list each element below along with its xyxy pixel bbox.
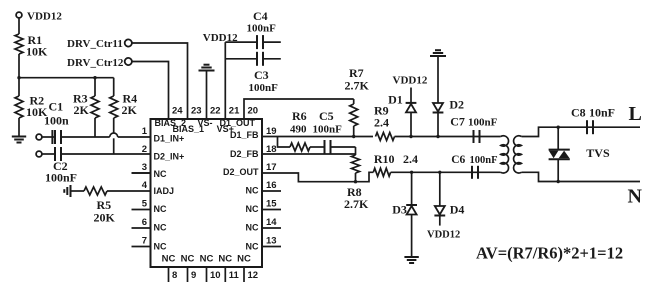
svg-text:2K: 2K [74, 103, 90, 117]
svg-text:VDD12: VDD12 [427, 230, 460, 241]
svg-text:R10: R10 [374, 152, 395, 166]
svg-text:BIAS_1: BIAS_1 [173, 124, 205, 134]
svg-text:VDD12: VDD12 [393, 75, 428, 87]
svg-text:D2_IN+: D2_IN+ [154, 152, 185, 162]
svg-text:C6: C6 [451, 154, 465, 166]
svg-text:NC: NC [200, 254, 214, 265]
svg-text:N: N [628, 186, 643, 208]
svg-text:C5: C5 [319, 109, 334, 123]
svg-text:4: 4 [142, 180, 148, 191]
svg-text:15: 15 [266, 199, 277, 210]
svg-text:NC: NC [246, 242, 259, 252]
svg-text:16: 16 [266, 180, 277, 191]
svg-text:R6: R6 [292, 109, 307, 123]
svg-text:21: 21 [229, 106, 240, 117]
svg-text:2.7K: 2.7K [345, 79, 370, 93]
svg-text:DRV_Ctr11: DRV_Ctr11 [67, 38, 123, 50]
svg-text:9: 9 [191, 270, 196, 281]
svg-text:20: 20 [248, 106, 259, 117]
svg-text:2: 2 [142, 144, 147, 155]
svg-text:10: 10 [210, 270, 221, 281]
svg-text:D3: D3 [392, 203, 407, 217]
svg-text:D2_FB: D2_FB [230, 149, 259, 159]
svg-text:2K: 2K [122, 103, 138, 117]
svg-text:13: 13 [266, 236, 277, 247]
svg-text:D1_FB: D1_FB [230, 130, 259, 140]
svg-text:23: 23 [191, 106, 202, 117]
svg-text:NC: NC [246, 204, 259, 214]
svg-text:D2: D2 [449, 98, 464, 112]
svg-text:NC: NC [181, 254, 195, 265]
svg-text:100nF: 100nF [45, 171, 77, 185]
svg-text:2.4: 2.4 [403, 152, 418, 166]
svg-text:1: 1 [142, 126, 148, 137]
svg-text:VDD12: VDD12 [27, 11, 62, 23]
svg-text:10K: 10K [26, 45, 48, 59]
svg-text:22: 22 [210, 106, 221, 117]
svg-text:20K: 20K [94, 211, 116, 225]
svg-text:D1: D1 [388, 93, 403, 107]
svg-text:19: 19 [266, 126, 277, 137]
svg-text:100nF: 100nF [313, 124, 343, 136]
svg-text:NC: NC [246, 186, 259, 196]
svg-text:11: 11 [229, 270, 240, 281]
svg-text:L: L [629, 103, 642, 125]
svg-text:C3: C3 [254, 68, 269, 82]
svg-text:D4: D4 [450, 203, 465, 217]
svg-text:NC: NC [237, 254, 251, 265]
svg-text:IADJ: IADJ [154, 186, 175, 196]
svg-text:D2_OUT: D2_OUT [223, 167, 259, 177]
svg-text:24: 24 [172, 106, 183, 117]
svg-text:NC: NC [154, 204, 167, 214]
svg-text:100nF: 100nF [470, 155, 498, 166]
svg-text:D1_IN+: D1_IN+ [154, 134, 185, 144]
svg-text:7: 7 [142, 236, 147, 247]
svg-text:2.4: 2.4 [374, 115, 389, 129]
svg-text:AV=(R7/R6)*2+1=12: AV=(R7/R6)*2+1=12 [476, 244, 623, 263]
svg-text:100n: 100n [44, 114, 69, 128]
svg-text:NC: NC [218, 254, 232, 265]
svg-text:2.7K: 2.7K [344, 197, 369, 211]
svg-text:C8: C8 [571, 106, 586, 120]
svg-text:C1: C1 [49, 100, 64, 114]
svg-text:DRV_Ctr12: DRV_Ctr12 [67, 57, 124, 69]
svg-text:100nF: 100nF [468, 117, 498, 129]
svg-text:3: 3 [142, 162, 147, 173]
svg-text:490: 490 [290, 124, 307, 136]
svg-text:C7: C7 [450, 115, 465, 129]
svg-text:C4: C4 [253, 9, 268, 23]
svg-text:NC: NC [154, 242, 167, 252]
svg-text:NC: NC [154, 169, 167, 179]
svg-text:14: 14 [266, 217, 277, 228]
svg-text:100nF: 100nF [249, 82, 279, 94]
svg-text:NC: NC [162, 254, 176, 265]
svg-text:TVS: TVS [586, 146, 610, 160]
svg-text:17: 17 [266, 162, 277, 173]
svg-text:5: 5 [142, 199, 148, 210]
svg-text:6: 6 [142, 217, 147, 228]
svg-text:10nF: 10nF [589, 106, 615, 120]
svg-text:NC: NC [246, 223, 259, 233]
svg-text:12: 12 [248, 270, 259, 281]
svg-text:100nF: 100nF [247, 23, 277, 35]
svg-text:NC: NC [154, 223, 167, 233]
svg-text:8: 8 [172, 270, 177, 281]
